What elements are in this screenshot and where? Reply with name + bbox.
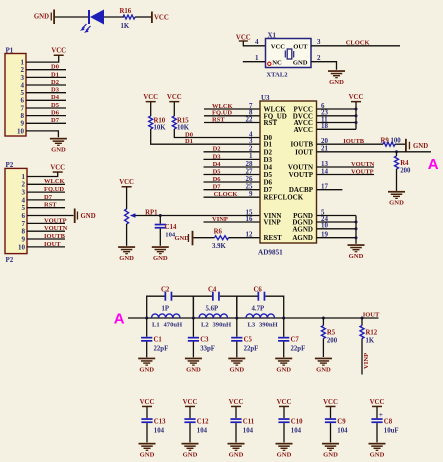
svg-text:10uF: 10uF: [384, 427, 399, 434]
wire VCC to RP1: [126, 187, 128, 209]
svg-text:D6: D6: [213, 176, 222, 183]
capacitor C3: [192, 318, 194, 337]
svg-text:R12: R12: [366, 329, 378, 336]
ground (R4): [388, 191, 405, 193]
wire VOUTN: [317, 166, 375, 168]
svg-text:C9: C9: [337, 418, 346, 425]
svg-text:IOUTB: IOUTB: [44, 233, 66, 240]
wire P2 pin 9 net IOUTB: [27, 238, 65, 240]
power symbol VCC (C11): [231, 406, 241, 408]
svg-text:104: 104: [197, 427, 208, 434]
svg-text:D4: D4: [213, 161, 222, 168]
svg-text:VINP: VINP: [212, 216, 228, 223]
wire GND to R6: [193, 237, 214, 239]
power symbol VCC (C13): [142, 406, 152, 408]
svg-text:C14: C14: [165, 224, 177, 231]
svg-text:5.6P: 5.6P: [206, 305, 219, 312]
svg-text:D7: D7: [44, 194, 53, 201]
svg-text:22pF: 22pF: [154, 345, 169, 352]
svg-text:R4: R4: [400, 160, 409, 167]
svg-text:AGND: AGND: [292, 234, 313, 242]
capacitor C7: [283, 318, 285, 337]
svg-text:3: 3: [317, 38, 321, 46]
svg-text:AD9851: AD9851: [258, 249, 283, 257]
svg-text:8: 8: [22, 228, 26, 236]
svg-text:CLOCK: CLOCK: [214, 191, 238, 198]
wire C11 to ground: [235, 423, 237, 442]
svg-text:D5: D5: [51, 102, 60, 109]
capacitor C8: [376, 407, 378, 418]
svg-text:22pF: 22pF: [244, 345, 259, 352]
svg-text:P2: P2: [6, 256, 14, 264]
junction: [282, 317, 285, 320]
wire DACBP stub: [317, 189, 343, 191]
power symbol VCC (P1 pin 1): [54, 55, 64, 57]
svg-text:AVCC: AVCC: [294, 126, 313, 134]
junction: [355, 221, 358, 224]
wire P2 pin 8 net VOUTN: [27, 230, 65, 232]
power symbol VCC (C8): [372, 406, 382, 408]
wire node A to filter: [128, 317, 147, 319]
svg-text:1K: 1K: [121, 23, 130, 30]
LED D1: [88, 10, 90, 24]
svg-text:3: 3: [22, 189, 26, 197]
svg-text:2: 2: [22, 181, 26, 189]
svg-text:D6: D6: [51, 110, 60, 117]
svg-text:GND: GND: [34, 14, 49, 21]
svg-text:GND: GND: [119, 255, 134, 262]
svg-text:FQ.UD: FQ.UD: [44, 186, 64, 193]
ground (C13): [139, 443, 156, 445]
ground (P1): [50, 138, 67, 140]
wire C8 to ground: [376, 423, 378, 442]
wire RP1 to ground: [126, 224, 128, 246]
wire P1 pin 7 net D5: [26, 107, 66, 109]
wire VCC to X1 pin 4: [243, 41, 265, 46]
power symbol VCC (P2 pin 1): [53, 171, 63, 173]
ground (RP1): [118, 246, 135, 248]
wire VOUTP: [317, 174, 375, 176]
wire P2 pin 4 net D7: [27, 199, 65, 201]
svg-text:AGND: AGND: [292, 225, 313, 233]
svg-text:D2: D2: [213, 146, 221, 153]
svg-text:VCC: VCC: [154, 14, 169, 21]
wire P1 pin 4 net D2: [26, 84, 66, 86]
wire C4 branch: [193, 296, 212, 318]
wire IOUTB: [317, 143, 384, 145]
potentiometer RP1: [125, 209, 129, 224]
svg-text:6: 6: [22, 212, 26, 220]
ground (C7): [275, 358, 292, 360]
wire net D2 to U3: [204, 151, 261, 153]
svg-text:VCC: VCC: [183, 399, 198, 406]
svg-text:VCC: VCC: [370, 399, 385, 406]
svg-text:D3: D3: [213, 153, 222, 160]
svg-text:VCC: VCC: [229, 399, 244, 406]
wire P2 pin 7 net VOUTP: [27, 222, 65, 224]
svg-text:C11: C11: [243, 418, 255, 425]
junction: [355, 121, 358, 124]
svg-text:GND: GND: [277, 452, 292, 459]
svg-text:L3: L3: [248, 321, 256, 328]
wire: [317, 115, 357, 117]
wire: [317, 108, 357, 110]
ground (C5): [228, 358, 245, 360]
inductor L3: [246, 314, 275, 318]
svg-text:VOUTP: VOUTP: [289, 171, 314, 179]
wire net D5 to U3: [204, 174, 261, 176]
junction: [235, 317, 238, 320]
ground (C1): [138, 358, 155, 360]
svg-text:VCC: VCC: [50, 165, 65, 172]
capacitor C5: [236, 318, 238, 337]
svg-text:L1: L1: [152, 321, 160, 328]
svg-text:1: 1: [255, 54, 259, 62]
svg-text:104: 104: [291, 427, 302, 434]
svg-text:REST: REST: [264, 234, 283, 242]
svg-text:GND: GND: [186, 366, 201, 373]
power symbol VCC (RP1): [122, 186, 132, 188]
wire P1 pin1 to VCC: [26, 56, 59, 63]
junction: [192, 317, 195, 320]
wire net D6 to U3: [204, 181, 261, 183]
svg-text:NC: NC: [272, 59, 282, 66]
svg-text:GND: GND: [293, 59, 308, 66]
wire net FQ.UD to U3: [204, 115, 260, 117]
svg-text:7: 7: [22, 220, 26, 228]
wire: [317, 237, 357, 239]
svg-text:470uH: 470uH: [164, 321, 184, 328]
inductor L1: [152, 314, 181, 318]
svg-text:IOUTB: IOUTB: [343, 138, 365, 145]
svg-text:R6: R6: [214, 229, 223, 236]
svg-text:IOUT: IOUT: [295, 148, 313, 156]
ground (U3): [348, 244, 365, 246]
svg-text:GND: GND: [51, 147, 66, 154]
wire: [317, 215, 357, 217]
capacitor C12: [189, 407, 191, 418]
svg-text:4: 4: [22, 196, 26, 204]
power symbol GND (P2 pin 6): [74, 209, 76, 224]
svg-text:D7: D7: [213, 184, 222, 191]
svg-text:VOUTP: VOUTP: [351, 168, 374, 175]
svg-text:D5: D5: [213, 168, 222, 175]
svg-text:GND: GND: [389, 200, 404, 207]
svg-text:GND: GND: [413, 143, 428, 150]
svg-text:REFCLOCK: REFCLOCK: [264, 194, 304, 202]
svg-text:GND: GND: [229, 452, 244, 459]
svg-text:CLOCK: CLOCK: [346, 40, 370, 47]
svg-text:9: 9: [22, 235, 26, 243]
svg-text:VCC: VCC: [323, 399, 338, 406]
wire C9 to ground: [330, 423, 332, 442]
power symbol VCC (LED): [151, 12, 153, 24]
svg-text:10K: 10K: [154, 124, 167, 131]
svg-text:GND: GND: [276, 366, 291, 373]
svg-text:1K: 1K: [366, 337, 375, 344]
svg-text:D1: D1: [51, 71, 59, 78]
wire R15 to D0: [174, 129, 260, 138]
wire X1 pin 3 CLOCK: [311, 45, 400, 47]
ground (C3): [185, 358, 202, 360]
svg-text:WLCK: WLCK: [44, 178, 65, 185]
inductor L2: [199, 314, 228, 318]
svg-text:104: 104: [154, 427, 165, 434]
wire: [317, 128, 357, 130]
wire P1 pin 3 net D1: [26, 76, 66, 78]
svg-text:VCC: VCC: [51, 48, 66, 55]
capacitor C9: [330, 407, 332, 418]
svg-text:16: 16: [246, 215, 254, 223]
svg-text:200: 200: [327, 337, 338, 344]
svg-text:C5: C5: [244, 337, 253, 344]
svg-text:104: 104: [337, 427, 348, 434]
svg-text:104: 104: [243, 427, 254, 434]
junction: [322, 317, 325, 320]
resistor R12: [361, 318, 363, 326]
ground (C9): [322, 443, 339, 445]
junction: [355, 236, 358, 239]
power symbol VCC (R15): [169, 101, 179, 103]
capacitor C11: [235, 407, 237, 418]
svg-text:L2: L2: [201, 321, 209, 328]
wire P2 pin 2 net WLCK: [27, 183, 65, 185]
wire X1 pin 2 to ground: [311, 62, 337, 70]
svg-text:R5: R5: [327, 329, 336, 336]
svg-text:VCC: VCC: [349, 94, 364, 101]
wire C2 branch: [147, 296, 165, 318]
svg-text:VCC: VCC: [143, 94, 158, 101]
wire P1 pin 6 net D4: [26, 99, 66, 101]
svg-text:33pF: 33pF: [200, 345, 215, 352]
svg-text:A: A: [114, 311, 125, 328]
power symbol VCC (C10): [279, 406, 289, 408]
svg-text:VCC: VCC: [140, 399, 155, 406]
wire net RST to U3: [204, 122, 260, 124]
svg-text:VCC: VCC: [277, 399, 292, 406]
wire R6 to U3 pin 12: [229, 237, 261, 239]
svg-text:VOUTN: VOUTN: [44, 225, 68, 232]
svg-text:VOUTN: VOUTN: [351, 161, 375, 168]
svg-text:4: 4: [255, 38, 259, 46]
wire C14 to ground: [159, 229, 161, 246]
svg-text:22: 22: [246, 115, 254, 123]
resistor R10: [149, 116, 153, 129]
svg-text:10: 10: [18, 243, 26, 251]
power symbol VCC (C9): [326, 406, 336, 408]
svg-text:1: 1: [22, 173, 26, 181]
junction: [159, 214, 162, 217]
svg-text:C12: C12: [197, 418, 209, 425]
capacitor C14: [159, 216, 161, 224]
svg-text:GND: GND: [183, 452, 198, 459]
svg-text:VINP: VINP: [363, 353, 370, 369]
power symbol GND (R9): [405, 139, 407, 153]
power symbol VCC (C12): [185, 406, 195, 408]
wire filter main rail: [147, 317, 379, 319]
svg-text:10K: 10K: [177, 124, 190, 131]
wire R9 to GND bar: [395, 143, 405, 145]
wire GND bus: [355, 216, 357, 244]
resistor R4: [396, 152, 398, 156]
svg-text:GND: GND: [316, 366, 331, 373]
wire VCC bus: [355, 102, 357, 129]
wire X1 pin 1: [243, 61, 266, 63]
wire: [104, 16, 124, 18]
svg-text:3.9K: 3.9K: [212, 243, 226, 250]
svg-text:9: 9: [249, 190, 253, 198]
svg-text:22pF: 22pF: [291, 345, 306, 352]
wire P2 pin 6 to GND: [27, 215, 74, 217]
svg-text:D3: D3: [51, 87, 60, 94]
junction: [355, 227, 358, 230]
wire R12 to VINP: [361, 339, 363, 375]
svg-text:1P: 1P: [162, 305, 170, 312]
svg-text:RST: RST: [264, 119, 278, 127]
capacitor C13: [146, 407, 148, 418]
junction: [361, 317, 364, 320]
svg-text:RST: RST: [44, 202, 57, 209]
wire R5 to ground: [322, 339, 324, 358]
ground (X1): [328, 70, 345, 72]
svg-text:R15: R15: [177, 117, 189, 124]
svg-text:D4: D4: [51, 94, 60, 101]
svg-text:GND: GND: [140, 452, 155, 459]
svg-text:GND: GND: [153, 255, 168, 262]
svg-text:C1: C1: [154, 337, 163, 344]
svg-text:D1: D1: [185, 138, 193, 145]
svg-text:D2: D2: [51, 79, 59, 86]
wire net CLOCK to U3: [204, 196, 261, 198]
wire P1 pin 5 net D3: [26, 92, 66, 94]
svg-text:A: A: [428, 156, 439, 173]
wire P1 pin10 to ground: [26, 131, 58, 137]
wire C13 to ground: [146, 423, 148, 442]
wire P1 pin 8 net D6: [26, 115, 66, 117]
svg-text:2: 2: [317, 54, 321, 62]
wire P2 pin 3 net FQ.UD: [27, 191, 65, 193]
svg-text:4.7P: 4.7P: [252, 305, 265, 312]
svg-text:GND: GND: [81, 213, 96, 220]
svg-text:10: 10: [17, 127, 25, 135]
wire P1 pin 9 net D7: [26, 122, 66, 124]
ground (C12): [182, 443, 199, 445]
wire RP1 wiper to U3 VINN: [135, 215, 260, 217]
svg-text:GND: GND: [229, 366, 244, 373]
svg-text:R10: R10: [154, 117, 166, 124]
power symbol VCC (R10): [146, 101, 156, 103]
wire P2 pin1 to VCC: [27, 172, 58, 176]
svg-text:GND: GND: [139, 366, 154, 373]
svg-text:GND: GND: [323, 452, 338, 459]
svg-text:IOUT: IOUT: [44, 241, 61, 248]
svg-text:390nH: 390nH: [213, 321, 233, 328]
power symbol VCC (U3 supply): [351, 101, 361, 103]
wire R4 to ground: [396, 169, 398, 191]
wire net WLCK to U3: [204, 108, 260, 110]
wire: [135, 16, 151, 18]
wire: [317, 221, 357, 223]
svg-text:GND: GND: [329, 79, 344, 86]
svg-text:VOUTP: VOUTP: [44, 217, 67, 224]
svg-text:200: 200: [400, 167, 411, 174]
wire P1 pin 2 net D0: [26, 69, 66, 71]
svg-text:VINP: VINP: [264, 219, 282, 227]
wire P2 pin 10 net IOUT: [27, 246, 65, 248]
svg-text:C7: C7: [291, 337, 300, 344]
svg-text:OUT: OUT: [293, 43, 308, 50]
svg-text:D7: D7: [51, 117, 60, 124]
wire net D3 to U3: [204, 158, 261, 160]
crystal symbol inside X1: [284, 51, 286, 58]
capacitor C10: [283, 407, 285, 418]
junction: [395, 150, 398, 153]
svg-text:VCC: VCC: [119, 179, 134, 186]
svg-text:DACBP: DACBP: [289, 186, 314, 194]
wire C6 branch: [237, 296, 258, 318]
ground (C8): [369, 443, 386, 445]
svg-text:RST: RST: [212, 116, 225, 123]
svg-text:R16: R16: [120, 8, 132, 15]
wire net D7 to U3: [204, 189, 261, 191]
svg-text:C3: C3: [200, 337, 209, 344]
svg-text:VCC: VCC: [236, 34, 251, 41]
svg-text:D0: D0: [51, 64, 59, 71]
wire VINP to U3: [204, 221, 261, 223]
svg-text:C10: C10: [291, 418, 303, 425]
ground (C10): [276, 443, 293, 445]
svg-text:GND: GND: [349, 253, 364, 260]
wire R10 to D1: [151, 129, 260, 144]
capacitor C1: [146, 318, 148, 337]
svg-text:D0: D0: [185, 131, 193, 138]
svg-text:VCC: VCC: [167, 94, 182, 101]
wire IOUT: [317, 151, 432, 153]
wire: [55, 16, 89, 18]
junction: [355, 114, 358, 117]
svg-text:GND: GND: [175, 235, 190, 242]
svg-text:XTAL2: XTAL2: [266, 71, 288, 78]
svg-text:390nH: 390nH: [259, 321, 279, 328]
wire: [317, 228, 357, 230]
junction: [355, 108, 358, 111]
svg-text:C13: C13: [154, 418, 166, 425]
junction: [145, 317, 148, 320]
ground (C11): [228, 443, 245, 445]
svg-text:IOUT: IOUT: [363, 312, 380, 319]
svg-text:5: 5: [22, 204, 26, 212]
resistor R15: [172, 116, 176, 129]
wire C10 to ground: [283, 423, 285, 442]
wire: [317, 122, 357, 124]
svg-text:C8: C8: [384, 418, 393, 425]
wire net D4 to U3: [204, 166, 261, 168]
svg-text:VCC: VCC: [271, 43, 286, 50]
ground (C14): [152, 246, 169, 248]
svg-text:GND: GND: [370, 452, 385, 459]
svg-text:12: 12: [246, 231, 254, 239]
svg-text:+: +: [379, 410, 383, 419]
resistor R5: [322, 318, 324, 326]
ground (R5): [315, 358, 332, 360]
wire C12 to ground: [189, 423, 191, 442]
wire P2 pin 5 net RST: [27, 207, 65, 209]
